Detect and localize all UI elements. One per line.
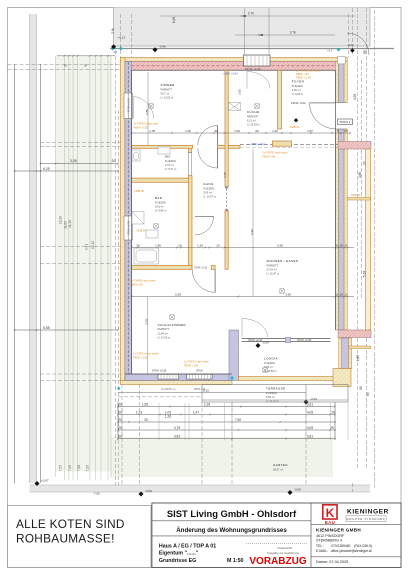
svg-text:6,92: 6,92 bbox=[250, 229, 254, 235]
svg-text:FBOK +135: FBOK +135 bbox=[133, 356, 148, 360]
svg-text:+0,07: +0,07 bbox=[41, 479, 49, 483]
svg-text:85: 85 bbox=[363, 50, 367, 54]
top gray band (upper storey outline) bbox=[110, 8, 394, 49]
svg-text:1,57: 1,57 bbox=[307, 129, 313, 133]
level markers (diamonds) bbox=[35, 44, 309, 496]
svg-text:FLIESEN: FLIESEN bbox=[264, 361, 275, 365]
bottom dim rows bbox=[118, 402, 335, 440]
svg-text:25: 25 bbox=[340, 243, 344, 247]
svg-text:Grundrisse EG: Grundrisse EG bbox=[159, 558, 196, 564]
svg-text:TERRASSE: TERRASSE bbox=[266, 387, 285, 391]
svg-text:Freigabe zur Ausführung: Freigabe zur Ausführung bbox=[267, 551, 299, 555]
svg-text:1,47: 1,47 bbox=[193, 410, 199, 414]
svg-text:U: 9,06 m: U: 9,06 m bbox=[292, 92, 303, 96]
construction dashed horizontals bbox=[8, 64, 353, 492]
terrain lines group bbox=[56, 56, 112, 480]
svg-text:U: 11,10 m: U: 11,10 m bbox=[266, 399, 279, 403]
svg-text:-0,09: -0,09 bbox=[294, 488, 301, 492]
loggia east wall bbox=[339, 338, 342, 369]
svg-text:1x FXF05 nach oben: 1x FXF05 nach oben bbox=[263, 151, 288, 155]
bad door bbox=[195, 217, 214, 235]
svg-text:20: 20 bbox=[216, 243, 220, 247]
svg-text:4,28: 4,28 bbox=[353, 94, 357, 100]
svg-text:1,76: 1,76 bbox=[223, 172, 227, 178]
svg-text:5,90: 5,90 bbox=[277, 243, 283, 247]
svg-text:6,21 m²: 6,21 m² bbox=[247, 119, 256, 123]
kitchen shaft box bbox=[229, 103, 241, 111]
svg-text:1,20: 1,20 bbox=[272, 129, 278, 133]
svg-text:K: K bbox=[326, 506, 335, 520]
svg-text:5,55: 5,55 bbox=[43, 326, 50, 330]
svg-text:6,25: 6,25 bbox=[43, 167, 50, 171]
kueche window swing bbox=[247, 72, 270, 89]
open beam dashed (Kueche/Foyer to Wohnen) bbox=[240, 144, 338, 146]
svg-text:GARTEN: GARTEN bbox=[273, 463, 288, 467]
svg-text:FOYER: FOYER bbox=[292, 80, 305, 84]
party wall pink band lower right bbox=[338, 330, 371, 338]
svg-text:-0,02: -0,02 bbox=[348, 43, 355, 47]
svg-text:DDB 04: DDB 04 bbox=[137, 229, 147, 233]
svg-text:10,12: 10,12 bbox=[91, 241, 95, 249]
wc fixtures bbox=[132, 147, 170, 161]
svg-text:STUK +2,20: STUK +2,20 bbox=[297, 338, 312, 342]
svg-text:+DBK +2,64: +DBK +2,64 bbox=[223, 71, 238, 75]
terrace outline bbox=[202, 385, 348, 403]
svg-text:U: 21,87 m: U: 21,87 m bbox=[267, 272, 280, 276]
loggia south wall bbox=[239, 377, 348, 381]
svg-text:3,75: 3,75 bbox=[174, 426, 180, 430]
stair rung 2 bbox=[349, 346, 371, 349]
WC door leaf bbox=[188, 153, 191, 176]
svg-text:BAU: BAU bbox=[325, 520, 336, 525]
svg-text:2,18: 2,18 bbox=[204, 402, 210, 406]
svg-text:GRUPPE PINSDORF: GRUPPE PINSDORF bbox=[346, 517, 385, 521]
svg-text:STUK +2,05: STUK +2,05 bbox=[152, 368, 167, 372]
svg-text:20: 20 bbox=[331, 410, 335, 414]
svg-text:PARKETT: PARKETT bbox=[247, 114, 259, 118]
interior wall W3 (WC/Bad) bbox=[132, 178, 192, 182]
svg-text:STUK: STUK bbox=[196, 368, 203, 372]
left wall insulation bbox=[121, 58, 126, 381]
svg-text:DDB 03: DDB 03 bbox=[290, 125, 300, 129]
svg-text:STOK +2,29: STOK +2,29 bbox=[127, 220, 131, 235]
svg-text:-0,04: -0,04 bbox=[262, 341, 269, 345]
top slope arrows bbox=[160, 16, 355, 35]
svg-text:3,08: 3,08 bbox=[70, 159, 77, 163]
svg-text:Unterschrift: Unterschrift bbox=[277, 546, 292, 550]
svg-text:2 %: 2 % bbox=[111, 28, 115, 34]
svg-text:3,61: 3,61 bbox=[307, 434, 313, 438]
svg-text:U: 10,63 m: U: 10,63 m bbox=[247, 123, 260, 127]
svg-text:FLIESEN: FLIESEN bbox=[266, 391, 277, 395]
right dim rotated labels bbox=[353, 50, 370, 396]
svg-text:PARKETT: PARKETT bbox=[161, 87, 173, 91]
svg-text:E-MAIL: office-pinsdorf@kien: E-MAIL: office-pinsdorf@kieninger.at bbox=[316, 549, 372, 553]
svg-text:FLIESEN: FLIESEN bbox=[155, 200, 166, 204]
interior dim line B bbox=[132, 247, 355, 249]
svg-text:9,07 m²: 9,07 m² bbox=[161, 92, 170, 96]
svg-text:ALLE KOTEN SIND: ALLE KOTEN SIND bbox=[16, 517, 125, 531]
svg-text:GANG: GANG bbox=[203, 182, 214, 186]
garden tint bottom bbox=[111, 437, 333, 477]
svg-text:STERNBERG 4: STERNBERG 4 bbox=[316, 539, 342, 543]
neighbour wall vertical right bbox=[366, 149, 371, 330]
svg-text:U: 12,62 m: U: 12,62 m bbox=[161, 96, 174, 100]
svg-text:2x FXF20 nach oben: 2x FXF20 nach oben bbox=[184, 360, 209, 364]
svg-text:5,39: 5,39 bbox=[175, 292, 181, 296]
alle koten box bbox=[8, 506, 152, 568]
svg-text:2x FXF05 nach unten: 2x FXF05 nach unten bbox=[130, 278, 156, 282]
svg-text:1,78: 1,78 bbox=[149, 129, 155, 133]
left wall (lavender) bbox=[125, 62, 132, 381]
svg-text:KÜCHE: KÜCHE bbox=[247, 110, 260, 114]
interior dim line C bbox=[132, 296, 355, 298]
svg-text:U: 12,85 m: U: 12,85 m bbox=[264, 369, 277, 373]
svg-text:Eigentum "......": Eigentum "......" bbox=[159, 551, 199, 557]
svg-text:7,55: 7,55 bbox=[59, 465, 63, 471]
garden tint left strip bbox=[56, 56, 112, 472]
svg-text:BAD: BAD bbox=[155, 196, 163, 200]
svg-text:FBOK +40: FBOK +40 bbox=[296, 72, 309, 76]
svg-text:WC: WC bbox=[165, 155, 171, 159]
svg-text:11,60: 11,60 bbox=[64, 221, 68, 229]
interior wall W8a (Wohnen north, orange) bbox=[228, 145, 240, 148]
svg-text:U: 10,07 m: U: 10,07 m bbox=[203, 195, 216, 199]
cyan annotations bbox=[113, 49, 333, 147]
svg-text:U: 9,94 m: U: 9,94 m bbox=[155, 209, 166, 213]
svg-text:FBOK +135: FBOK +135 bbox=[134, 126, 149, 130]
svg-text:2,82: 2,82 bbox=[237, 89, 241, 95]
svg-text:FBOK +95: FBOK +95 bbox=[194, 388, 206, 391]
svg-text:2x FXF03 nach oben: 2x FXF03 nach oben bbox=[134, 122, 159, 126]
svg-text:2 %: 2 % bbox=[248, 12, 254, 16]
svg-text:PARKETT: PARKETT bbox=[158, 327, 170, 331]
svg-text:FBOK +95: FBOK +95 bbox=[130, 282, 143, 286]
svg-text:+4,13: +4,13 bbox=[118, 36, 126, 40]
svg-text:SCHLAFZIMMER: SCHLAFZIMMER bbox=[158, 323, 187, 327]
svg-text:7,95: 7,95 bbox=[86, 465, 90, 471]
svg-text:9,41: 9,41 bbox=[85, 244, 89, 250]
svg-text:ZIMMER: ZIMMER bbox=[161, 83, 176, 87]
svg-text:7,95: 7,95 bbox=[68, 465, 72, 471]
svg-text:M 1:50: M 1:50 bbox=[227, 558, 244, 564]
svg-text:1,85: 1,85 bbox=[356, 355, 360, 361]
svg-text:VORABZUG: VORABZUG bbox=[249, 556, 306, 567]
svg-text:1,96: 1,96 bbox=[155, 243, 161, 247]
svg-text:25: 25 bbox=[340, 292, 344, 296]
svg-text:-0,09: -0,09 bbox=[145, 489, 152, 493]
wohnen south window band bbox=[242, 338, 331, 343]
svg-text:1x FXF05 nach oben: 1x FXF05 nach oben bbox=[296, 69, 321, 73]
svg-text:1,00: 1,00 bbox=[234, 129, 240, 133]
svg-text:U: 14,35 m: U: 14,35 m bbox=[158, 336, 171, 340]
interior wall W7 (Kueche/Foyer) bbox=[278, 70, 282, 129]
svg-text:LOGGIA: LOGGIA bbox=[264, 357, 278, 361]
svg-text:DDB 05: DDB 05 bbox=[135, 189, 145, 193]
svg-text:11,10: 11,10 bbox=[68, 220, 72, 228]
corner lintel box bbox=[338, 57, 346, 64]
svg-text:Haus A / EG / TOP A 01: Haus A / EG / TOP A 01 bbox=[159, 544, 216, 550]
svg-text:5,91 m²: 5,91 m² bbox=[155, 205, 164, 209]
svg-text:7,58: 7,58 bbox=[77, 465, 81, 471]
loggia west pillar bbox=[229, 330, 239, 381]
orange annotation texts bbox=[130, 69, 361, 368]
svg-text:Änderung des Wohnungsgrundriss: Änderung des Wohnungsgrundrisses bbox=[176, 527, 287, 534]
svg-text:2x FXF03 nach unten: 2x FXF03 nach unten bbox=[133, 352, 159, 356]
stair landing wall right bbox=[347, 198, 370, 201]
svg-text:FLIESEN: FLIESEN bbox=[165, 159, 176, 163]
left wall window 1 bbox=[124, 93, 133, 119]
svg-text:TEL.: 070/1265460 (F: TEL.: 070/1265460 (FAX-DW-9) bbox=[316, 544, 372, 548]
svg-text:U: 5,77 m: U: 5,77 m bbox=[165, 167, 176, 171]
svg-text:4,05: 4,05 bbox=[307, 410, 313, 414]
interior dim line A bbox=[132, 132, 351, 134]
svg-text:20: 20 bbox=[178, 243, 182, 247]
svg-text:STUK +2,29: STUK +2,29 bbox=[245, 67, 261, 71]
svg-text:1,97 m²: 1,97 m² bbox=[165, 163, 174, 167]
svg-text:5,60 m²: 5,60 m² bbox=[266, 395, 275, 399]
right wall lavender bbox=[335, 62, 352, 369]
svg-text:12,90: 12,90 bbox=[59, 216, 63, 224]
wohnen terrace-door swing bbox=[242, 319, 268, 338]
svg-text:3,90: 3,90 bbox=[285, 292, 291, 296]
svg-text:FFOK -0,02: FFOK -0,02 bbox=[291, 101, 306, 105]
svg-text:DDB 05: DDB 05 bbox=[351, 193, 361, 197]
svg-text:1,20: 1,20 bbox=[185, 129, 191, 133]
interior wall W4 (Bad east) bbox=[189, 176, 193, 270]
svg-text:1,23: 1,23 bbox=[136, 410, 142, 414]
interior wall W1 (Zimmer south) bbox=[132, 145, 193, 148]
foyer entrance door gap bbox=[335, 103, 348, 130]
corridor door bbox=[198, 148, 218, 168]
rotated interior dims bbox=[145, 89, 255, 325]
WC door jamb stub bbox=[189, 148, 192, 152]
svg-text:4,05: 4,05 bbox=[307, 426, 313, 430]
top wall window box bbox=[244, 55, 271, 71]
zimmer door bbox=[198, 126, 218, 146]
svg-text:+0,6: +0,6 bbox=[327, 49, 333, 53]
svg-text:-0,04: -0,04 bbox=[310, 397, 317, 401]
svg-text:KIENINGER: KIENINGER bbox=[347, 509, 389, 516]
svg-text:STUK +2,20: STUK +2,20 bbox=[248, 338, 263, 342]
schlafzimmer windows (ticked boxes) bbox=[152, 368, 212, 379]
svg-text:1,26: 1,26 bbox=[165, 415, 171, 419]
top wall outer insulation (yellow) bbox=[121, 58, 348, 71]
crosshair marks bbox=[149, 104, 284, 372]
svg-text:80: 80 bbox=[359, 386, 363, 390]
kieninger logo bbox=[323, 505, 389, 525]
svg-text:1,95: 1,95 bbox=[142, 402, 148, 406]
svg-text:12,84 m²: 12,84 m² bbox=[158, 331, 168, 335]
svg-text:KIENINGER GMBH: KIENINGER GMBH bbox=[316, 528, 361, 533]
party wall pink band upper right bbox=[338, 142, 371, 150]
svg-text:20: 20 bbox=[112, 159, 116, 163]
bad fixtures bbox=[132, 212, 159, 265]
schlafzimmer south wall bbox=[121, 368, 233, 384]
svg-text:5,65 m²: 5,65 m² bbox=[264, 365, 273, 369]
svg-text:Datum: 07.04.2025: Datum: 07.04.2025 bbox=[316, 560, 348, 564]
svg-text:-4,6: -4,6 bbox=[113, 50, 118, 54]
outside entrance swing (in gray area) bbox=[347, 33, 369, 55]
schlafzimmer door bbox=[192, 269, 215, 292]
left wall window 2 bbox=[124, 216, 133, 240]
svg-text:TOP A 1: TOP A 1 bbox=[339, 120, 350, 124]
svg-text:3,61: 3,61 bbox=[307, 402, 313, 406]
svg-text:2x FXF05 n.u.: 2x FXF05 n.u. bbox=[161, 388, 176, 391]
svg-text:2,80: 2,80 bbox=[145, 109, 149, 115]
loggia SE corner block bbox=[333, 369, 351, 387]
svg-text:ROHBAUMASSE!: ROHBAUMASSE! bbox=[16, 532, 115, 546]
top wall brick band (pink hatched) bbox=[125, 62, 344, 71]
svg-text:60: 60 bbox=[255, 129, 259, 133]
svg-text:58,97 m²: 58,97 m² bbox=[273, 468, 283, 472]
svg-text:1,20: 1,20 bbox=[197, 243, 203, 247]
svg-text:4,86: 4,86 bbox=[358, 172, 362, 178]
left dim lines bbox=[15, 64, 119, 483]
dim 5,39 top of schlafzimmer bbox=[131, 296, 133, 298]
room labels bbox=[155, 80, 306, 472]
svg-text:WOHNEN / ESSEN: WOHNEN / ESSEN bbox=[267, 259, 299, 263]
svg-text:FBOK +100: FBOK +100 bbox=[184, 364, 199, 368]
title block bbox=[152, 503, 401, 568]
svg-text:STOK +2,29: STOK +2,29 bbox=[127, 98, 131, 113]
foyer entrance swing bbox=[310, 103, 336, 129]
door arcs bbox=[192, 33, 369, 292]
svg-text:3,93: 3,93 bbox=[174, 434, 180, 438]
svg-text:STUK +2,10: STUK +2,10 bbox=[194, 267, 208, 270]
svg-text:-7,05: -7,05 bbox=[93, 492, 100, 496]
svg-text:25: 25 bbox=[144, 418, 148, 422]
svg-text:4612 PINSDORF: 4612 PINSDORF bbox=[316, 534, 345, 538]
svg-text:8,18: 8,18 bbox=[172, 17, 176, 23]
svg-text:FLIESEN: FLIESEN bbox=[292, 84, 303, 88]
svg-text:FBOK +40: FBOK +40 bbox=[263, 155, 276, 159]
interior wall W6 (Zimmer/Kueche, corridor east) bbox=[225, 70, 228, 186]
TOP A 1 label box bbox=[338, 119, 353, 125]
bottom gray band bbox=[30, 485, 371, 492]
left gray band (neighbour boundary) bbox=[30, 14, 37, 483]
svg-text:3,79: 3,79 bbox=[145, 319, 149, 325]
svg-text:27,18 m²: 27,18 m² bbox=[267, 268, 277, 272]
svg-text:4,65 m²: 4,65 m² bbox=[292, 88, 301, 92]
svg-text:-0,46: -0,46 bbox=[159, 45, 166, 49]
svg-text:25: 25 bbox=[344, 129, 348, 133]
svg-text:FLIESEN: FLIESEN bbox=[203, 186, 214, 190]
foyer door cap wall bbox=[272, 141, 291, 146]
construction dashed verticals bbox=[116, 8, 375, 488]
interior wall W5 (Bad south / Schlafzimmer north) bbox=[132, 266, 193, 270]
svg-text:SIST Living GmbH - Ohlsdorf: SIST Living GmbH - Ohlsdorf bbox=[167, 508, 297, 519]
svg-text:7,50: 7,50 bbox=[235, 418, 241, 422]
svg-text:2 %: 2 % bbox=[290, 31, 296, 35]
terrain dim labels rotated bbox=[59, 216, 96, 471]
svg-text:65: 65 bbox=[366, 392, 370, 396]
svg-text:PARKETT: PARKETT bbox=[267, 263, 279, 267]
svg-text:5,06 m²: 5,06 m² bbox=[203, 191, 212, 195]
zimmer window swing bbox=[134, 97, 154, 119]
svg-text:+DBK +2,64: +DBK +2,64 bbox=[250, 142, 265, 146]
